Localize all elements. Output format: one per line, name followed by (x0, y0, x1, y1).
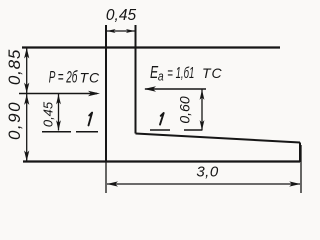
svg-text:ТС: ТС (202, 65, 223, 81)
svg-text:0,85: 0,85 (5, 49, 24, 85)
svg-text:0,45: 0,45 (41, 101, 56, 127)
svg-text:3,0: 3,0 (196, 164, 219, 181)
force Ea line (145, 88, 206, 90)
svg-text:P = 2б: P = 2б (49, 68, 79, 86)
extension line right for 3,0 (300, 145, 302, 193)
svg-text:0,90: 0,90 (5, 101, 24, 140)
arrowhead 0,45 inner top (up) (56, 94, 61, 104)
section 1-1 dash right b (184, 129, 202, 131)
svg-text:= 1,б1: = 1,б1 (167, 63, 194, 81)
left dimension middle tick / force P line (19, 93, 97, 95)
ground line (22, 46, 280, 48)
section 1-1 dash left b (76, 131, 98, 133)
svg-text:ТС: ТС (80, 70, 101, 86)
svg-text:0,60: 0,60 (177, 96, 193, 123)
footing right edge (299, 143, 301, 163)
dimension 0,60: dim line (201, 90, 203, 131)
arrowhead 3,0 dim (left) (107, 181, 118, 186)
section 1-1 dash right a (150, 129, 170, 131)
footing top slanted edge (136, 134, 301, 143)
arrowhead left dim top (up) (24, 48, 29, 59)
extension line left for 3,0 (105, 162, 107, 193)
section 1-1 dash left a (42, 131, 71, 133)
dimension 3,0: dim line (107, 183, 300, 185)
arrowhead 0,45 top dim (left) (107, 29, 116, 33)
label point 1 (left) (89, 113, 93, 126)
wall stem left edge (105, 25, 107, 162)
arrowhead 3,0 dim (right) (289, 181, 300, 186)
svg-text:0,45: 0,45 (106, 7, 137, 24)
arrowhead left dim middle upper (down) (24, 83, 29, 94)
arrowhead force P (right) (88, 91, 100, 97)
arrowhead left dim bottom (down) (24, 151, 29, 162)
arrowhead force Ea (left) (144, 86, 156, 92)
svg-text:a: a (158, 69, 164, 83)
arrowhead 0,60 top (up) (200, 90, 205, 100)
arrowhead 0,60 bottom (down) (200, 120, 205, 130)
dimension 0,45 inner: dim line (58, 94, 60, 131)
left dimension line 0,85 / 0,90 (26, 48, 28, 162)
dimension 0,45 top: dim line (106, 30, 136, 32)
label Ea = 1,61 тс (150, 63, 159, 83)
arrowhead 0,45 top dim (right) (126, 29, 135, 33)
label P = 26 тс (49, 68, 79, 86)
wall stem right edge (135, 25, 137, 134)
label point 1 (right) (160, 113, 164, 125)
footing bottom edge (23, 160, 300, 162)
arrowhead left dim middle lower (up) (24, 94, 29, 105)
arrowhead 0,45 inner bottom (down) (56, 120, 61, 130)
